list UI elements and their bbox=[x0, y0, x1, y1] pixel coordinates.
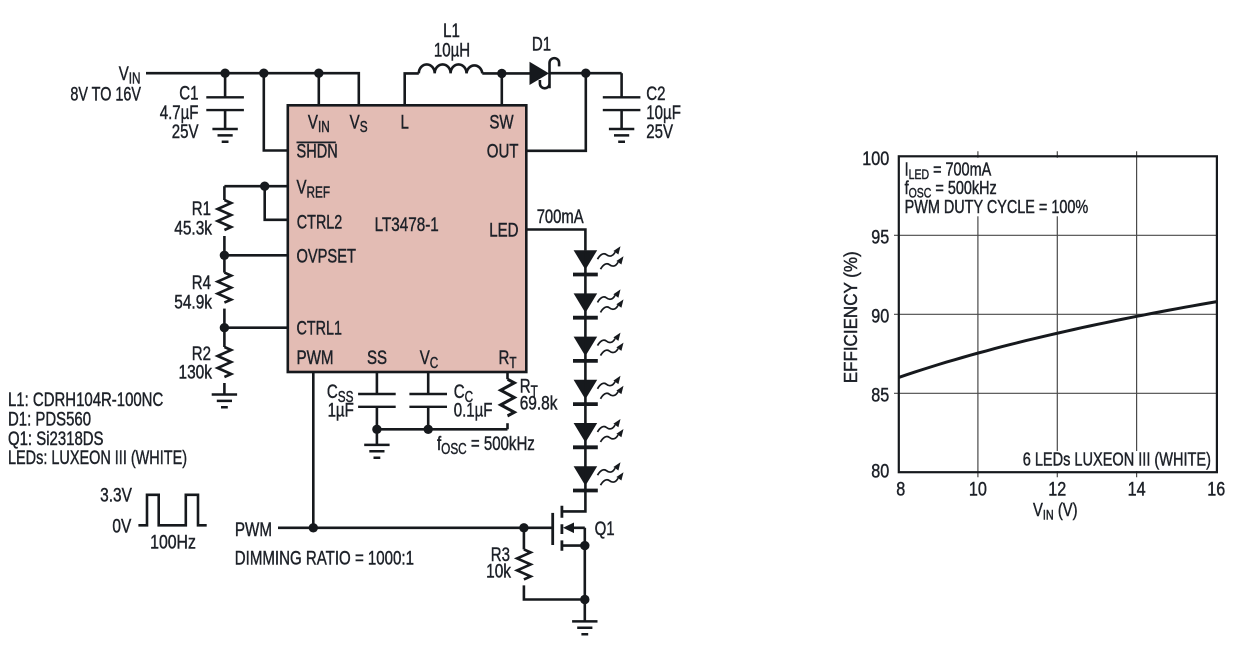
svg-text:16: 16 bbox=[1207, 478, 1225, 500]
svg-text:LED: LED bbox=[489, 218, 518, 241]
svg-text:CTRL1: CTRL1 bbox=[297, 316, 342, 339]
svg-text:OVPSET: OVPSET bbox=[297, 244, 357, 267]
svg-text:SW: SW bbox=[489, 110, 514, 133]
svg-text:CTRL2: CTRL2 bbox=[297, 210, 342, 233]
svg-text:OUT: OUT bbox=[487, 139, 519, 162]
svg-text:PWM DUTY CYCLE = 100%: PWM DUTY CYCLE = 100% bbox=[905, 196, 1089, 217]
svg-text:8: 8 bbox=[896, 478, 905, 500]
svg-text:L: L bbox=[401, 110, 410, 133]
svg-text:45.3k: 45.3k bbox=[174, 217, 212, 239]
svg-text:90: 90 bbox=[871, 305, 889, 327]
svg-text:10µH: 10µH bbox=[434, 38, 470, 61]
svg-text:700mA: 700mA bbox=[537, 205, 584, 228]
svg-text:8V TO 16V: 8V TO 16V bbox=[70, 82, 141, 105]
svg-text:25V: 25V bbox=[172, 120, 199, 143]
svg-text:PWM: PWM bbox=[235, 518, 272, 540]
svg-text:SS: SS bbox=[367, 346, 387, 369]
svg-text:PWM: PWM bbox=[297, 346, 334, 368]
svg-text:LT3478-1: LT3478-1 bbox=[375, 213, 439, 235]
svg-text:14: 14 bbox=[1128, 478, 1146, 500]
svg-text:95: 95 bbox=[871, 226, 889, 248]
svg-text:80: 80 bbox=[871, 460, 889, 482]
svg-text:10k: 10k bbox=[486, 559, 511, 581]
svg-text:Q1: Q1 bbox=[595, 517, 615, 540]
svg-text:1µF: 1µF bbox=[328, 398, 354, 421]
svg-text:54.9k: 54.9k bbox=[174, 291, 212, 313]
svg-text:LEDs: LUXEON III (WHITE): LEDs: LUXEON III (WHITE) bbox=[8, 446, 187, 469]
svg-text:3.3V: 3.3V bbox=[100, 483, 132, 505]
svg-text:DIMMING RATIO = 1000:1: DIMMING RATIO = 1000:1 bbox=[235, 546, 414, 569]
svg-text:100: 100 bbox=[862, 148, 889, 170]
svg-text:12: 12 bbox=[1048, 478, 1066, 500]
svg-text:130k: 130k bbox=[179, 361, 213, 383]
svg-text:6 LEDs LUXEON III (WHITE): 6 LEDs LUXEON III (WHITE) bbox=[1023, 449, 1211, 470]
svg-text:25V: 25V bbox=[646, 120, 673, 143]
svg-text:D1: D1 bbox=[532, 32, 551, 55]
svg-text:0V: 0V bbox=[112, 515, 131, 537]
svg-text:69.8k: 69.8k bbox=[520, 392, 558, 414]
svg-text:EFFICIENCY (%): EFFICIENCY (%) bbox=[840, 251, 861, 383]
svg-text:85: 85 bbox=[871, 384, 889, 406]
svg-text:VIN (V): VIN (V) bbox=[1033, 500, 1078, 523]
svg-text:0.1µF: 0.1µF bbox=[454, 398, 493, 421]
svg-text:SHDN: SHDN bbox=[297, 139, 338, 162]
svg-text:10: 10 bbox=[969, 478, 987, 500]
svg-text:100Hz: 100Hz bbox=[150, 531, 196, 553]
